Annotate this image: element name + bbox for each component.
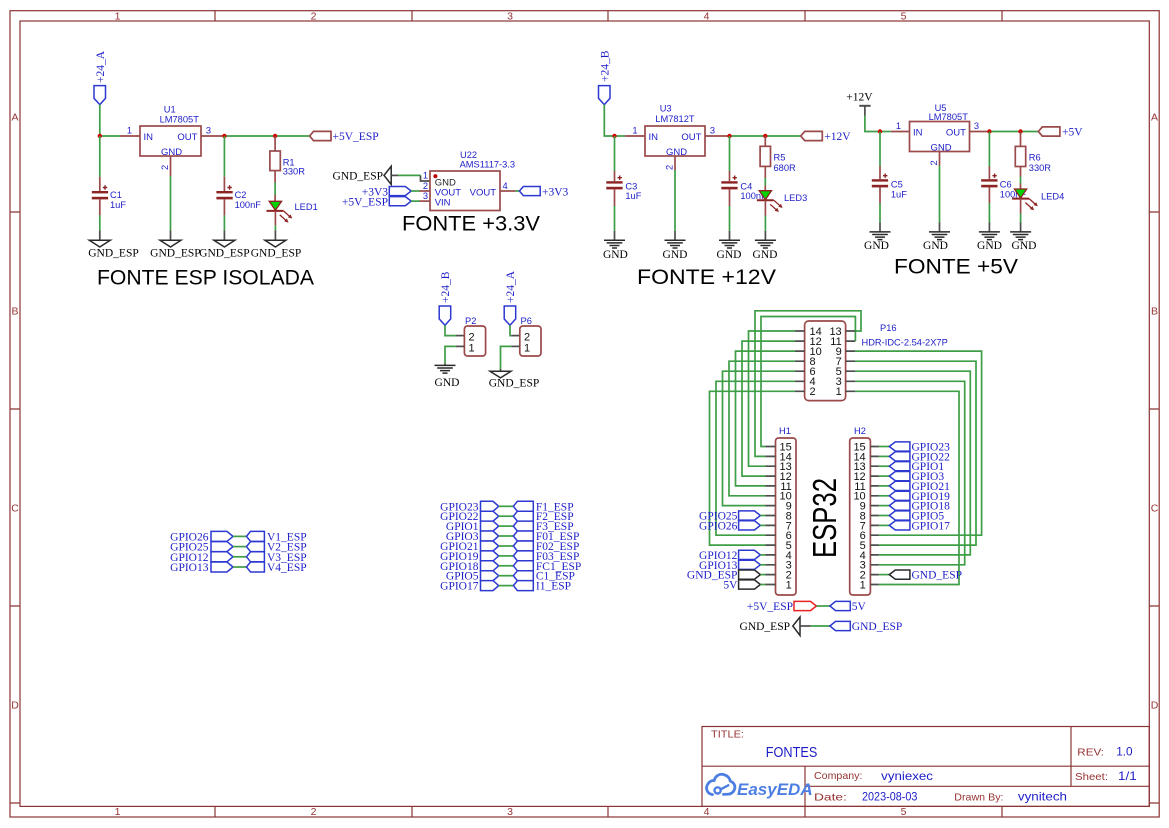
net flag GND_ESP at H1.2 (687, 570, 766, 582)
ground GND C5 stub (879, 223, 881, 232)
svg-text:vyniexec: vyniexec (881, 769, 933, 783)
ground GND_ESP U1 stub (170, 230, 172, 240)
wire P16.1 to H2.1 (855, 391, 959, 584)
svg-text:GND_ESP: GND_ESP (150, 248, 200, 260)
svg-text:3: 3 (974, 121, 979, 131)
capacitor C4 plates (721, 181, 737, 183)
svg-text:LED4: LED4 (1041, 192, 1064, 202)
svg-text:A: A (11, 112, 18, 124)
U5 pin 1 (891, 131, 910, 133)
wire +24_B to rail (604, 105, 614, 136)
junction node R5 (763, 134, 767, 138)
svg-text:OUT: OUT (946, 127, 966, 138)
wire P16.11 to H1.15 (761, 317, 855, 447)
resistor R6 bottom pin (1020, 167, 1022, 177)
ground GND C6 stub (988, 223, 990, 232)
wire U5 OUT rail (989, 131, 1038, 133)
svg-text:GND: GND (161, 147, 182, 158)
svg-text:1: 1 (468, 343, 474, 355)
net flag GPIO3 at H2.12 (879, 471, 944, 483)
wire C1 top (99, 136, 101, 177)
wire P16.2 to H1.5 (710, 391, 796, 545)
capacitor C2 top pin (223, 177, 225, 191)
capacitor C5 plates (872, 179, 888, 181)
svg-text:100nF: 100nF (235, 200, 262, 210)
op U22 body (430, 171, 500, 211)
net pair GPIO5/C1_ESP (446, 571, 575, 583)
op U1 body (140, 126, 201, 156)
U1 pin 3 (201, 135, 224, 137)
wire +24_B to P2 pin2 (445, 325, 456, 335)
P16 left pin stubs (795, 331, 805, 391)
svg-text:Drawn By:: Drawn By: (954, 792, 1003, 804)
svg-text:3: 3 (507, 10, 513, 22)
svg-text:OUT: OUT (681, 132, 701, 143)
svg-text:P2: P2 (465, 316, 476, 326)
junction node rail/C1 (98, 134, 102, 138)
LED3 cathode bar (757, 199, 774, 201)
svg-text:2: 2 (665, 165, 675, 170)
svg-text:1: 1 (127, 126, 132, 136)
port GND_ESP tail (800, 625, 811, 627)
resistor R6 body (1015, 146, 1025, 166)
ground GND_ESP U1 (160, 240, 181, 247)
U3 pin 2 (674, 156, 676, 170)
svg-text:U3: U3 (660, 103, 672, 113)
resistor R1 bottom pin (274, 171, 276, 183)
svg-text:U1: U1 (164, 105, 176, 115)
svg-text:vynitech: vynitech (1018, 790, 1067, 804)
capacitor C2 plates (216, 191, 232, 193)
net flag GPIO21 at H2.11 (879, 481, 950, 493)
wire rail to U1 IN (100, 135, 120, 137)
svg-text:C1: C1 (110, 190, 122, 200)
P16 left pin numbers (810, 326, 822, 398)
svg-text:+24_B: +24_B (440, 271, 452, 303)
svg-text:D: D (11, 700, 19, 712)
svg-text:+24_A: +24_A (95, 50, 107, 83)
EasyEDA logo cloud (707, 774, 735, 794)
connector H2 body (850, 438, 871, 595)
net pair GPIO26/V1_ESP (170, 531, 306, 543)
LED1 anode pin (274, 195, 276, 201)
wire R1 to LED1 (274, 183, 276, 196)
title block outline (702, 727, 1149, 807)
power flag +12V bar (859, 105, 870, 107)
capacitor C3 top pin (614, 171, 616, 181)
H2 pin stubs (870, 447, 879, 585)
wire C2 top (223, 136, 225, 177)
wire GND_ESP pair (811, 625, 830, 627)
capacitor C4 plus sign (733, 176, 737, 180)
LED4 arrow 2 (1025, 203, 1034, 211)
net pair GPIO1/F3_ESP (446, 521, 574, 533)
svg-text:+24_B: +24_B (600, 50, 612, 82)
wire P16.4 to H1.6 (716, 381, 795, 535)
LED1 arrow 1 (284, 211, 293, 219)
frame top ticks (215, 11, 1002, 21)
svg-text:R6: R6 (1029, 152, 1041, 162)
net pair GPIO13/V4_ESP (170, 562, 306, 574)
svg-text:GND_ESP: GND_ESP (333, 170, 383, 182)
ground GND C5 (870, 232, 891, 240)
svg-text:GND_ESP: GND_ESP (912, 570, 962, 582)
port +5V_ESP (310, 131, 331, 140)
ground GND U5 (929, 232, 950, 240)
svg-text:C3: C3 (625, 182, 637, 192)
svg-text:2023-08-03: 2023-08-03 (862, 790, 918, 804)
ground GND_ESP LED1 (265, 240, 286, 247)
svg-text:3: 3 (710, 126, 715, 136)
ground GND LED3 (755, 240, 776, 248)
wire C4 to ground (729, 206, 731, 231)
wire C6 top (988, 132, 990, 167)
svg-text:3: 3 (507, 806, 513, 818)
svg-text:1uF: 1uF (891, 189, 907, 199)
H2 pin numbers (853, 441, 865, 591)
ground GND_ESP P6 stub (500, 369, 502, 371)
net flag GPIO17 at H2.7 (879, 520, 950, 532)
net pair GPIO25/V2_ESP (170, 542, 306, 554)
svg-text:IN: IN (144, 132, 154, 143)
net flag +5V_ESP left (389, 197, 411, 206)
wire R6 to LED4 (1020, 177, 1022, 184)
svg-text:GND: GND (923, 240, 948, 252)
capacitor C6 plus sign (992, 174, 996, 178)
ground GND C3 stub (614, 231, 616, 240)
svg-text:VOUT: VOUT (470, 188, 497, 199)
wire P16.14 to H1.13 (749, 331, 796, 466)
svg-text:LED3: LED3 (784, 193, 807, 203)
wire P6 pin1 to ground (501, 346, 512, 369)
title block rev divider (1070, 727, 1072, 787)
wire P16.13 to H1.14 (755, 311, 861, 457)
svg-text:GPIO13: GPIO13 (170, 562, 209, 574)
net flag GPIO25 at H1.8 (699, 511, 765, 523)
ground GND_ESP C1 (89, 240, 110, 247)
svg-text:1.0: 1.0 (1116, 745, 1133, 759)
svg-text:2: 2 (929, 160, 939, 165)
net pair GPIO23/F1_ESP (440, 501, 573, 513)
svg-text:FONTE +5V: FONTE +5V (894, 256, 1018, 279)
wire P16.12 to H1.12 (742, 341, 795, 476)
ground GND_ESP P6 (490, 371, 511, 378)
wire P16.9 to H2.6 (855, 351, 981, 535)
net flag GPIO1 at H2.13 (879, 461, 944, 473)
net flag GPIO12 at H1.4 (699, 550, 765, 562)
wire C1 to ground (99, 215, 101, 230)
wire +3V3 to U22 pin2 (411, 190, 419, 192)
svg-text:P6: P6 (521, 316, 532, 326)
svg-text:C4: C4 (740, 182, 752, 192)
power flag +12V stub (864, 106, 866, 116)
svg-text:LED1: LED1 (295, 202, 318, 212)
svg-text:GND: GND (753, 249, 778, 261)
svg-text:D: D (1151, 700, 1159, 712)
junction node R1 (273, 134, 277, 138)
svg-text:B: B (1151, 306, 1158, 318)
capacitor C1 bottom pin (99, 199, 101, 215)
svg-text:1: 1 (896, 121, 901, 131)
svg-text:5V: 5V (852, 601, 867, 613)
U22 pin 2 (420, 190, 431, 192)
net pair GPIO22/F2_ESP (440, 511, 573, 523)
svg-text:IN: IN (649, 132, 659, 143)
U3 pin 3 (705, 135, 730, 137)
net pair GPIO3/F01_ESP (446, 531, 579, 543)
svg-text:2: 2 (160, 165, 170, 170)
wire LED1 to ground (274, 225, 276, 230)
U5 pin 2 (939, 152, 941, 166)
wire P16.10 to H1.11 (736, 351, 796, 486)
svg-text:2: 2 (423, 181, 428, 191)
ground GND U3 (665, 240, 686, 248)
wire P16.7 to H2.5 (855, 361, 976, 545)
LED3 body (759, 191, 771, 200)
ground GND P2 (435, 365, 456, 373)
connector P16 body (805, 321, 846, 401)
svg-text:P16: P16 (880, 323, 897, 333)
wire C5 top (879, 132, 881, 167)
wire P16.3 to H2.3 (855, 381, 964, 565)
frame right ticks (1149, 212, 1159, 803)
svg-text:B: B (11, 306, 18, 318)
svg-text:GND: GND (930, 142, 951, 153)
capacitor C3 bottom pin (614, 189, 616, 206)
svg-text:5: 5 (901, 10, 907, 22)
svg-text:1/1: 1/1 (1118, 769, 1137, 783)
svg-text:5V: 5V (723, 580, 738, 592)
svg-text:GND: GND (435, 377, 460, 389)
ground GND P2 stub (444, 363, 446, 365)
net pair GPIO21/F02_ESP (440, 541, 579, 553)
svg-text:1: 1 (115, 806, 121, 818)
frame row letters left (11, 112, 19, 712)
svg-text:FONTES: FONTES (766, 744, 818, 761)
P2 pin 2 stub (456, 335, 465, 337)
svg-text:GND_ESP: GND_ESP (740, 621, 790, 633)
title block row line 1 (702, 765, 1149, 767)
net flag +24_B (P2) (439, 306, 451, 325)
title block row line 2 (805, 785, 1149, 787)
wire U3 OUT rail (730, 135, 801, 137)
svg-text:A: A (1151, 112, 1158, 124)
wire U3 GND down (674, 170, 676, 231)
U1 pin 2 (170, 156, 172, 176)
LED3 cathode pin (764, 200, 766, 215)
svg-text:FONTE ESP ISOLADA: FONTE ESP ISOLADA (97, 267, 314, 290)
svg-text:680R: 680R (774, 163, 797, 173)
svg-text:H2: H2 (854, 426, 866, 436)
wire P16.8 to H1.10 (729, 361, 795, 496)
svg-text:GPIO26: GPIO26 (699, 520, 738, 532)
svg-text:+5V_ESP: +5V_ESP (342, 196, 388, 208)
wire U22 pin4 to +3V3 (516, 190, 520, 192)
net pair GPIO17/I1_ESP (440, 581, 571, 593)
LED3 anode pin (764, 186, 766, 191)
wire U1 GND down (170, 176, 172, 230)
svg-text:3: 3 (206, 126, 211, 136)
capacitor C3 plus sign (618, 176, 622, 180)
ground GND LED4 stub (1020, 223, 1022, 232)
svg-text:4: 4 (704, 806, 710, 818)
svg-text:GND: GND (717, 249, 742, 261)
H1 pin stubs (766, 447, 776, 585)
ground GND U5 stub (939, 223, 941, 232)
capacitor C4 top pin (729, 171, 731, 181)
wire C6 to ground (988, 203, 990, 223)
svg-text:+5V_ESP: +5V_ESP (333, 131, 379, 143)
ground GND_ESP C2 (214, 240, 235, 247)
svg-text:REV:: REV: (1077, 747, 1104, 759)
net flag GPIO19 at H2.10 (879, 491, 950, 503)
net flag +3V3 right (519, 187, 540, 196)
svg-text:Date:: Date: (814, 792, 847, 804)
svg-text:GND: GND (663, 249, 688, 261)
svg-text:330R: 330R (283, 167, 306, 177)
ground GND C4 stub (729, 231, 731, 240)
svg-text:1: 1 (786, 579, 792, 591)
svg-text:VIN: VIN (435, 198, 451, 209)
svg-text:C: C (1151, 503, 1159, 515)
capacitor C4 bottom pin (729, 189, 731, 206)
net pair GPIO18/FC1_ESP (440, 561, 581, 573)
svg-text:330R: 330R (1029, 163, 1052, 173)
wire GND_ESP to U22 (398, 174, 421, 176)
resistor R6 top pin (1020, 132, 1022, 147)
svg-text:EasyEDA: EasyEDA (737, 780, 813, 799)
svg-text:GND: GND (977, 240, 1002, 252)
ground GND_ESP C2 stub (223, 230, 225, 240)
net flag GPIO13 at H1.3 (699, 560, 765, 572)
LED4 cathode pin (1020, 199, 1022, 214)
wire P16.5 to H2.4 (855, 371, 970, 555)
svg-text:GND_ESP: GND_ESP (489, 378, 539, 390)
wire +24_A to P6 pin2 (510, 325, 511, 335)
svg-text:IN: IN (913, 127, 923, 138)
net flag GPIO5 at H2.8 (879, 511, 944, 523)
wire U5 GND down (939, 166, 941, 223)
net flag +24_B (599, 86, 611, 105)
wire U1 OUT rail (224, 135, 309, 137)
LED4 arrow 1 (1029, 199, 1038, 207)
op U3 body (645, 126, 705, 156)
capacitor C1 top pin (99, 177, 101, 191)
port GND_ESP tail (391, 174, 398, 176)
P16 right pin numbers (829, 326, 841, 398)
wire R5 to LED3 (764, 178, 766, 186)
junction node R6 (1018, 129, 1022, 133)
connector P6 body (520, 326, 541, 356)
svg-text:+5V_ESP: +5V_ESP (747, 601, 793, 613)
net pair GPIO12/V3_ESP (170, 552, 306, 564)
U22 pin 4 (500, 190, 516, 192)
net flag 5V at H1.1 (723, 580, 765, 592)
svg-text:GPIO17: GPIO17 (912, 520, 951, 532)
svg-text:5: 5 (901, 806, 907, 818)
wire +12V to rail (865, 116, 880, 132)
wire elbow to U22 pin1 (421, 175, 431, 181)
LED3 arrow 2 (770, 204, 779, 212)
svg-text:Company:: Company: (814, 770, 862, 782)
svg-text:C6: C6 (1000, 180, 1012, 190)
svg-text:C5: C5 (891, 180, 903, 190)
svg-text:2: 2 (311, 806, 317, 818)
wire C5 to ground (879, 203, 881, 223)
capacitor C6 plates (981, 179, 997, 181)
resistor R1 body (270, 151, 280, 171)
svg-text:GND_ESP: GND_ESP (852, 621, 902, 633)
capacitor C6 bottom pin (988, 187, 990, 203)
capacitor C3 plates (606, 181, 622, 183)
capacitor C5 top pin (879, 167, 881, 180)
net flag GPIO23 at H2.15 (879, 442, 950, 454)
svg-text:2: 2 (810, 386, 816, 398)
title block logo divider (804, 766, 806, 806)
wire C4 top (729, 136, 731, 171)
U5 pin 3 (970, 131, 990, 133)
svg-text:R5: R5 (774, 152, 786, 162)
wire LED4 to ground (1020, 214, 1022, 223)
U3 pin 1 (625, 135, 645, 137)
U22 pin 1 dot (433, 174, 437, 178)
svg-text:1: 1 (836, 386, 842, 398)
wire rail to U3 IN (615, 135, 626, 137)
U22 pin 3 (420, 200, 431, 202)
wire P2 pin1 to ground (445, 346, 456, 363)
svg-text:4: 4 (704, 10, 710, 22)
capacitor C6 top pin (988, 167, 990, 180)
net flag +24_A (P6) (504, 306, 516, 325)
capacitor C5 bottom pin (879, 187, 881, 203)
resistor R5 body (760, 146, 770, 166)
ground GND_ESP C1 stub (99, 230, 101, 240)
net flag +24_A (94, 86, 106, 105)
svg-text:OUT: OUT (177, 132, 197, 143)
junction node C2 (222, 134, 226, 138)
net flag pair +5V_ESP/5V below H1 (747, 601, 867, 613)
P16 right pin stubs (846, 331, 856, 391)
port +12V (801, 131, 823, 140)
LED4 body (1014, 189, 1026, 198)
port GND_ESP arrow (384, 166, 391, 184)
junction node C6 (987, 129, 991, 133)
svg-text:1: 1 (524, 343, 530, 355)
svg-text:GND: GND (666, 147, 687, 158)
U1 pin 1 (120, 135, 140, 137)
LED3 arrow 1 (774, 200, 783, 208)
svg-text:1uF: 1uF (110, 200, 126, 210)
svg-text:4: 4 (503, 181, 508, 191)
svg-text:GND: GND (864, 240, 889, 252)
capacitor C2 plus sign (227, 185, 231, 189)
svg-text:GND: GND (603, 249, 628, 261)
LED1 arrow 2 (280, 215, 289, 223)
net flag GPIO18 at H2.9 (879, 501, 950, 513)
junction node C4 (727, 134, 731, 138)
LED4 anode pin (1020, 184, 1022, 190)
svg-text:1: 1 (632, 126, 637, 136)
wire +5V_ESP to U22 pin3 (411, 200, 419, 202)
net flag +3V3 left (389, 187, 411, 196)
ground GND LED4 (1010, 232, 1031, 240)
P6 pin 2 stub (511, 335, 520, 337)
wire P16.6 to H1.9 (723, 371, 796, 505)
ground GND U3 stub (674, 231, 676, 240)
LED1 cathode pin (274, 211, 276, 226)
net flag GPIO26 at H1.7 (699, 520, 765, 532)
frame column numbers bottom (115, 806, 907, 818)
